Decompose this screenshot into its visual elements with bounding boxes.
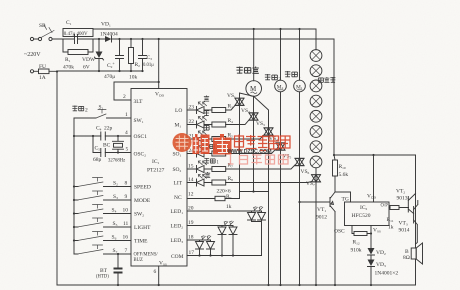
capacitor C2 470u xyxy=(119,39,121,71)
svg-text:PT2127: PT2127 xyxy=(147,168,165,174)
wire rail corner down to audio xyxy=(334,39,335,160)
LED matrix pin19 pair xyxy=(187,225,233,227)
svg-text:4: 4 xyxy=(125,130,128,136)
IC2 VDD pin xyxy=(373,155,375,202)
TG node box xyxy=(335,192,351,202)
row3 M2: LED + R5 to VS3 gate xyxy=(187,135,264,139)
IC2 OSC pin + R12 910k xyxy=(352,226,371,234)
zener VDW 6V xyxy=(98,39,100,71)
svg-text:9014: 9014 xyxy=(399,228,410,234)
svg-text:10k: 10k xyxy=(129,75,138,81)
crystal BC 32768Hz xyxy=(113,136,124,153)
LED matrix pin18 pair xyxy=(187,239,211,241)
svg-text:LIT: LIT xyxy=(174,181,183,187)
svg-text:O/P: O/P xyxy=(381,204,389,209)
svg-text:HFC520: HFC520 xyxy=(352,213,371,219)
svg-text:6: 6 xyxy=(154,269,157,275)
transistor VT3 9014 xyxy=(413,207,415,224)
lamp string 8 bulbs xyxy=(310,50,322,168)
svg-text:9012: 9012 xyxy=(316,215,327,221)
collector rail down to speaker xyxy=(415,155,417,285)
row6 LIT: LED + R8 to VS7 gate xyxy=(187,181,311,184)
svg-text:1A: 1A xyxy=(39,75,46,81)
resistor R2 10k xyxy=(130,39,132,71)
svg-text:VDW: VDW xyxy=(82,57,96,63)
triac VS7 (lamps) xyxy=(315,168,317,175)
svg-text:FU: FU xyxy=(39,64,46,70)
svg-text:32768Hz: 32768Hz xyxy=(108,159,125,164)
svg-text:M2: M2 xyxy=(277,84,284,90)
triac VS3 xyxy=(254,96,269,128)
svg-text:OSC: OSC xyxy=(334,229,345,235)
IC2 O/P pin + R11 1k xyxy=(389,207,409,209)
row2 M1: LED + R4 to VS2 gate xyxy=(187,120,249,125)
transistor VT1 9012 xyxy=(329,198,331,207)
wire H1 VDD distribution y=155 xyxy=(334,154,416,156)
row5 SO2: LED + R7 to VS5 gate xyxy=(187,165,295,169)
resistor R10 5.6k xyxy=(333,160,338,176)
capacitor C1 0.47u 400V xyxy=(63,29,93,37)
IC2 VSS pin xyxy=(370,226,372,249)
svg-text:16: 16 xyxy=(123,235,129,241)
svg-text:0.01μ: 0.01μ xyxy=(143,63,154,68)
svg-text:11: 11 xyxy=(123,221,129,227)
svg-text:1k: 1k xyxy=(226,204,232,210)
svg-text:5.6k: 5.6k xyxy=(339,172,349,178)
speaker B 8ohm xyxy=(411,248,416,259)
motor M1 xyxy=(294,80,306,92)
resistor R1 470k xyxy=(63,39,93,52)
triac VS1 xyxy=(240,93,254,98)
svg-text:470k: 470k xyxy=(63,65,74,71)
svg-text:8: 8 xyxy=(125,181,128,187)
capacitor C5 68p xyxy=(93,136,131,153)
svg-text:68p: 68p xyxy=(93,157,102,163)
svg-text:LO: LO xyxy=(175,108,182,114)
svg-text:OSC1: OSC1 xyxy=(134,134,148,140)
diode VD1 1N4004 xyxy=(105,36,112,42)
svg-text:910k: 910k xyxy=(351,248,362,254)
row7 pin12 R9 1k xyxy=(187,198,240,200)
svg-text:OFF/MENS/: OFF/MENS/ xyxy=(134,253,159,258)
svg-text:1N4001×2: 1N4001×2 xyxy=(375,271,399,277)
diode VD2 xyxy=(368,248,375,255)
svg-text:2: 2 xyxy=(85,108,88,114)
svg-text:5: 5 xyxy=(126,147,129,153)
LED matrix pin20 pair xyxy=(187,210,262,212)
svg-text:(HTD): (HTD) xyxy=(96,275,109,280)
terminal FU bottom xyxy=(30,70,33,73)
row4 SO1: LED + R6 to VS4 gate xyxy=(187,149,276,153)
triac VS2 xyxy=(253,96,255,113)
transistor VT2 9013 xyxy=(407,197,409,213)
svg-text:~220V: ~220V xyxy=(24,52,41,58)
IC1 PT2127 xyxy=(131,89,187,267)
svg-text:470μ: 470μ xyxy=(104,74,115,80)
capacitor C3 0.01u xyxy=(142,39,144,71)
svg-text:1: 1 xyxy=(125,112,128,118)
svg-text:BUZ: BUZ xyxy=(134,258,144,263)
diode VD3 xyxy=(368,260,375,267)
svg-text:10: 10 xyxy=(123,208,129,214)
IC1 bottom pin 6 VSS xyxy=(158,266,160,285)
capacitor C4 22p xyxy=(74,135,131,137)
svg-text:6V: 6V xyxy=(83,65,90,71)
triac VS4 xyxy=(280,92,282,143)
watermark xyxy=(173,133,291,165)
IC2 HFC520 xyxy=(345,202,390,226)
main motor M xyxy=(246,81,262,97)
svg-text:BC: BC xyxy=(103,143,111,149)
wire triac cathode bus xyxy=(240,192,269,199)
svg-text:22p: 22p xyxy=(104,126,113,132)
svg-text:1N4004: 1N4004 xyxy=(100,32,118,38)
COM row pin17 xyxy=(187,255,262,257)
svg-text:M: M xyxy=(250,85,257,93)
svg-text:9013: 9013 xyxy=(397,196,408,202)
wire VDD drop to IC xyxy=(158,39,160,89)
svg-text:1k: 1k xyxy=(388,225,394,231)
switch SB xyxy=(38,37,41,40)
svg-text:8Ω: 8Ω xyxy=(403,255,410,261)
svg-text:0.47μ 400V: 0.47μ 400V xyxy=(64,32,88,37)
svg-text:2: 2 xyxy=(123,94,126,100)
svg-text:TIME: TIME xyxy=(134,239,148,245)
svg-text:LIGHT: LIGHT xyxy=(134,225,151,231)
switches S2-S7 xyxy=(73,178,131,255)
svg-text:12: 12 xyxy=(188,192,194,198)
svg-text:NC: NC xyxy=(174,195,182,201)
wire upper AC rail y=29 xyxy=(93,28,316,30)
svg-text:WWW.DZSC.COM: WWW.DZSC.COM xyxy=(228,149,273,155)
wire neutral bus y=71 xyxy=(57,70,143,72)
svg-text:MODE: MODE xyxy=(134,198,151,204)
terminal ~220V top xyxy=(30,37,33,40)
wire lower AC rail y=39 xyxy=(34,38,335,40)
svg-text:COM: COM xyxy=(171,254,184,260)
lamp string feed xyxy=(315,29,317,50)
buzzer BT (HTD) xyxy=(117,254,119,285)
svg-text:SB: SB xyxy=(39,23,46,29)
svg-text:9: 9 xyxy=(125,194,128,200)
label swing2 xyxy=(72,106,77,112)
svg-text:SPEED: SPEED xyxy=(134,185,151,191)
label lamp string xyxy=(318,78,323,82)
wire 3LT tie to VDD xyxy=(114,82,159,100)
fuse FU 1A xyxy=(34,70,58,72)
svg-text:3LT: 3LT xyxy=(134,99,144,105)
svg-text:7: 7 xyxy=(125,248,128,254)
switch S1 (swing2) xyxy=(74,117,131,119)
svg-text:BT: BT xyxy=(100,268,108,274)
svg-text:M1: M1 xyxy=(296,84,303,90)
switch bus xyxy=(73,118,75,254)
row1 LO: LED + R3 to VS1 gate xyxy=(187,105,235,110)
wire neutral drop x=57 xyxy=(56,71,58,285)
motor M2 xyxy=(275,80,287,92)
wire bottom rail y=285 xyxy=(57,284,416,286)
motor M feed from upper rail xyxy=(253,29,255,81)
triac VS5 xyxy=(299,92,301,159)
